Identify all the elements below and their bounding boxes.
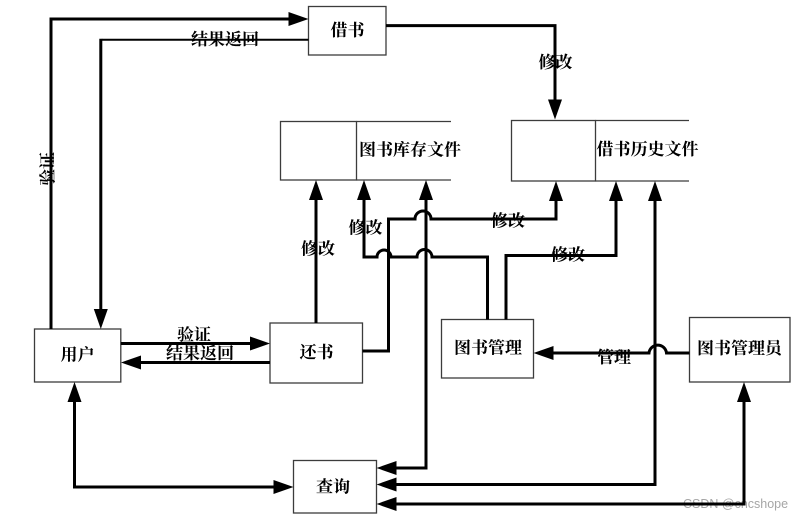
label 修改 管理→历史 [551, 246, 584, 262]
wire 借书→借书历史文件 (修改) [386, 26, 555, 100]
label 修改 管理→库存 [349, 219, 382, 235]
label 借书历史文件 [597, 141, 698, 157]
process box 查询 (query) [294, 461, 377, 514]
label 用户 [61, 346, 93, 362]
wire 还书→用户 (结果返回) [140, 361, 270, 364]
external entity 用户 (user) [35, 329, 121, 382]
wire 借书历史文件↔查询 (double arrow) [396, 200, 656, 485]
label 借书 [331, 22, 364, 38]
process box 图书管理 (book management) [442, 320, 534, 379]
label 还书 [300, 344, 333, 360]
external entity 图书管理员 (book administrator) [690, 318, 791, 383]
wire 还书→借书历史文件 (修改), hop over x=426 [363, 200, 557, 351]
label 结果返回 bottom [166, 345, 233, 361]
wire 图书管理员→图书管理 (管理), hop over x=655 [553, 345, 690, 353]
wire 还书→图书库存文件 (修改) [315, 199, 318, 323]
wire 用户↔查询 (double arrow) [75, 401, 275, 487]
wire 图书库存文件↔查询 (double arrow) [396, 199, 427, 468]
wire 图书管理→图书库存文件 (修改), hops over x=426 and x=388 [364, 199, 488, 320]
wire 图书管理→借书历史文件 (修改) [506, 200, 616, 320]
label 修改 还书→历史 [491, 212, 524, 228]
wire 用户→借书 (验证) [51, 19, 289, 329]
process box 借书 (borrow book) [309, 7, 387, 56]
label 验证 horizontal [177, 326, 210, 342]
label 查询 [317, 478, 350, 494]
data store 借书历史文件 (borrow history file) [512, 121, 596, 182]
label 结果返回 top [191, 31, 258, 47]
label 管理 [598, 348, 631, 364]
wire 用户→还书 (验证) [121, 342, 251, 345]
label 图书管理 [456, 339, 522, 355]
label 图书管理员 [699, 339, 781, 355]
label 修改 还书→库存 [301, 240, 334, 256]
data store 图书库存文件 (book inventory file) [281, 122, 357, 181]
label 修改 借书→历史 [539, 54, 572, 70]
label 验证 (rotated) [39, 152, 55, 185]
process box 还书 (return book) [270, 323, 363, 383]
label 图书库存文件 [361, 141, 461, 157]
wire 借书→用户 (结果返回) [102, 39, 309, 41]
wire 图书管理员↔查询 (double arrow) [396, 401, 745, 504]
